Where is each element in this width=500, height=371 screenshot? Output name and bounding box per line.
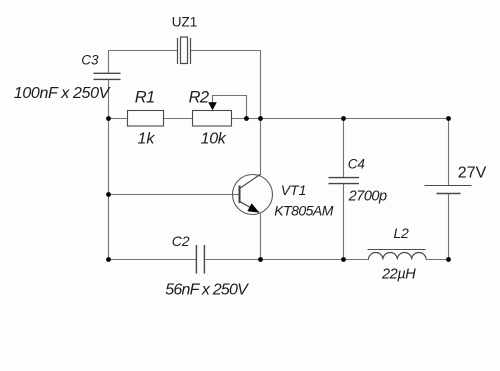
wire R2 wiper connection <box>213 96 247 119</box>
battery GB 27V long plate <box>425 185 472 187</box>
node at battery bottom <box>446 257 451 262</box>
battery GB 27V short plate <box>437 193 461 195</box>
wire L2 to battery bottom <box>426 259 448 261</box>
transistor VT1 collector stroke <box>240 174 261 188</box>
transistor VT1 emitter arrowhead <box>247 203 259 212</box>
wire from crystal right to elbow down to node <box>191 51 261 119</box>
wire left rail lower (C3 bottom plate to bottom wire) <box>108 80 110 260</box>
svg-text:VT1: VT1 <box>281 182 307 198</box>
wire C2 to L2 <box>205 259 369 261</box>
svg-text:C2: C2 <box>172 233 190 249</box>
crystal UZ1 <box>178 37 191 64</box>
svg-text:UZ1: UZ1 <box>172 14 198 29</box>
wire bottom left to C2 <box>109 259 197 261</box>
capacitor C3 <box>94 73 121 79</box>
svg-text:R1: R1 <box>135 89 155 107</box>
node at R2 wiper tap <box>244 116 249 121</box>
wire battery top lead <box>448 119 450 186</box>
wire collector rail down to transistor <box>260 119 262 175</box>
svg-text:27V: 27V <box>458 164 487 181</box>
node at bottom left corner <box>106 257 111 262</box>
wire C4 top lead <box>343 119 345 178</box>
node at left rail / R1 <box>106 116 111 121</box>
wire top-left horizontal from left rail to crystal <box>108 50 178 52</box>
node at emitter / bottom rail <box>258 257 263 262</box>
svg-text:1k: 1k <box>138 130 156 147</box>
capacitor C2 <box>196 245 204 274</box>
svg-text:100nF x 250V: 100nF x 250V <box>14 85 111 102</box>
transistor VT1 base bar <box>239 186 241 204</box>
svg-text:10k: 10k <box>201 130 227 147</box>
inductor L2 core line <box>368 249 426 251</box>
wire battery bottom lead <box>448 194 450 260</box>
wire base of transistor to left rail <box>109 194 240 196</box>
svg-text:22µH: 22µH <box>381 267 416 283</box>
transistor VT1 emitter stroke <box>240 201 259 212</box>
capacitor C4 <box>329 178 360 184</box>
svg-text:R2: R2 <box>189 89 209 107</box>
resistor R2 <box>193 111 232 127</box>
node at C4 top <box>341 116 346 121</box>
node at battery top <box>446 116 451 121</box>
node at left rail / base <box>106 192 111 197</box>
svg-text:2700p: 2700p <box>348 188 387 204</box>
node at collector rail <box>258 116 263 121</box>
wire C4 node to battery node <box>344 118 449 120</box>
svg-text:L2: L2 <box>394 225 409 241</box>
svg-text:KT805AM: KT805AM <box>274 202 334 218</box>
wire R1 to R2 <box>164 118 193 120</box>
svg-text:C3: C3 <box>81 53 99 68</box>
transistor VT1 circle <box>233 175 273 215</box>
wire R2 to C4 node <box>232 118 344 120</box>
inductor L2 winding <box>369 253 427 260</box>
wire emitter down to bottom rail <box>260 213 262 260</box>
resistor R1 <box>128 111 164 127</box>
wire node to R1 <box>109 118 128 120</box>
wire C4 bottom lead <box>343 184 345 260</box>
svg-text:56nF x 250V: 56nF x 250V <box>165 282 249 299</box>
wire left rail upper (to C3 top plate) <box>108 50 110 74</box>
node at C4 bottom <box>341 257 346 262</box>
svg-text:C4: C4 <box>348 157 365 172</box>
R2 wiper arrow <box>208 102 217 110</box>
